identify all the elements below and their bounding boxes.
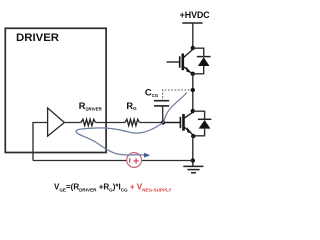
node Q1 emitter <box>191 72 195 76</box>
wire RG to gate <box>140 122 181 124</box>
wire buffer output <box>64 122 81 124</box>
dashed net collector to CCG <box>163 90 193 101</box>
resistor RG <box>125 119 140 126</box>
wire Q2 emitter to ground rail <box>192 136 194 166</box>
svg-text:VGE=(RDRIVER +RG)*ICG + VNEG-S: VGE=(RDRIVER +RG)*ICG + VNEG-SUPPLY <box>54 182 172 192</box>
+HVDC rail bar <box>182 22 202 24</box>
transistor Q1 (top IGBT) <box>167 49 193 74</box>
wire capacitor to gate <box>162 106 164 123</box>
wire buffer input <box>33 123 48 161</box>
op-amp buffer U1 <box>48 108 65 136</box>
arrow current path <box>144 153 150 158</box>
node gate junction <box>161 120 165 124</box>
wire HVDC to Q1 collector <box>192 23 194 48</box>
node Q2 collector <box>191 109 195 113</box>
driver box <box>5 28 106 152</box>
diode D1 <box>193 48 211 74</box>
svg-text:CCG: CCG <box>145 86 159 98</box>
node Q1 collector <box>191 46 195 50</box>
arrow Q1 emitter <box>186 67 191 73</box>
transistor Q2 (bottom IGBT) <box>163 112 194 135</box>
minus terminal <box>129 158 131 163</box>
svg-text:DRIVER: DRIVER <box>16 32 59 44</box>
node mid (phase) <box>191 88 195 92</box>
current path ICG (blue) <box>76 93 187 156</box>
ground <box>183 166 203 172</box>
capacitor CCG <box>154 101 169 106</box>
wire Q1 emitter to mid node <box>192 74 194 111</box>
wire bottom rail left <box>33 160 127 162</box>
plus terminal <box>133 158 138 163</box>
node Q2 emitter <box>191 134 195 138</box>
wire RDRIVER to RG <box>96 122 126 124</box>
wire bottom rail right <box>141 160 192 162</box>
resistor RDRIVER <box>81 119 96 126</box>
diode D2 <box>193 111 212 136</box>
svg-text:+HVDC: +HVDC <box>180 10 211 20</box>
svg-text:RG: RG <box>126 101 137 111</box>
arrow Q2 emitter <box>187 127 192 133</box>
voltage source V neg-supply <box>127 153 142 168</box>
node ground junction <box>191 158 195 162</box>
